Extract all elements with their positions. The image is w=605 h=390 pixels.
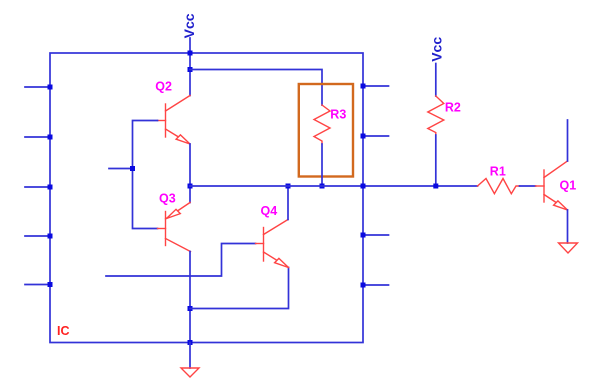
wire pin stub left 2	[25, 136, 50, 138]
node Q4 collector bus junction	[286, 184, 291, 189]
wire Vcc2 drop	[435, 64, 437, 97]
wire pin stub left 5	[25, 284, 50, 286]
IC body rectangle	[50, 53, 363, 343]
node Vcc1 branch junction	[188, 67, 193, 72]
wire main output bus	[190, 185, 478, 187]
wire Q4 collector to bus	[287, 186, 289, 220]
node R2 bus junction	[433, 184, 438, 189]
node bottom edge junction	[188, 340, 193, 345]
node R3 bus junction	[320, 184, 325, 189]
resistor R3	[314, 105, 330, 144]
wire pin stub left 4	[25, 235, 50, 237]
resistor R2	[428, 96, 444, 135]
wire Q4 base net	[106, 244, 256, 277]
svg-text:R1: R1	[490, 164, 506, 178]
wire Q3 collector down to IC bottom	[189, 252, 191, 343]
wire Vcc1 drop	[189, 38, 191, 96]
node collector-emitter junction	[188, 306, 193, 311]
svg-text:Q4: Q4	[261, 204, 278, 218]
svg-text:Vcc: Vcc	[428, 37, 444, 62]
wire base stub	[109, 168, 133, 170]
wire Q1 emitter to ground	[567, 210, 569, 243]
wire pin stub left 1	[25, 86, 50, 88]
wire pin stub right 2	[363, 135, 389, 137]
svg-text:Q2: Q2	[155, 80, 172, 94]
transistor Q4	[256, 220, 289, 268]
ground symbol IC	[181, 368, 199, 377]
node pin2 junction	[48, 135, 53, 140]
svg-text:Vcc: Vcc	[181, 13, 197, 38]
node emitter bus junction	[188, 184, 193, 189]
transistor Q3	[158, 203, 191, 252]
node pin1 junction	[48, 85, 53, 90]
wire pin stub right 1	[363, 85, 389, 87]
highlight box around R3	[299, 84, 353, 177]
svg-text:Q3: Q3	[159, 192, 176, 206]
node base stub junction	[130, 166, 135, 171]
node pin8 junction	[361, 233, 366, 238]
svg-text:IC: IC	[57, 324, 70, 338]
wire ground lead	[189, 343, 191, 369]
ground symbol Q1	[559, 243, 578, 253]
wire Q1 collector stub	[567, 120, 569, 161]
node pin4 junction	[48, 234, 53, 239]
node pin7 junction	[361, 134, 366, 139]
node pin6 junction	[361, 84, 366, 89]
wire Q4 emitter net	[190, 268, 289, 309]
wire pin stub right 4	[363, 284, 389, 286]
wire R1 to Q1 base	[520, 185, 536, 187]
wire pin stub left 3	[25, 186, 50, 188]
node pin3 junction	[48, 185, 53, 190]
wire pin stub right 3	[363, 234, 389, 236]
resistor R1	[478, 179, 520, 194]
node bus right-edge junction	[361, 184, 366, 189]
wire R2 bottom to bus	[435, 135, 437, 186]
svg-text:R2: R2	[445, 101, 461, 115]
svg-text:R3: R3	[330, 108, 346, 122]
node pin5 junction	[48, 282, 53, 287]
wire Q2 emitter to Q3 emitter	[189, 144, 191, 203]
transistor Q2	[158, 96, 191, 145]
wire Q2 base net	[133, 121, 158, 229]
node Vcc1 top-edge junction	[188, 51, 193, 56]
node pin9 junction	[361, 283, 366, 288]
svg-text:Q1: Q1	[560, 178, 577, 192]
wire Vcc branch to R3 top	[190, 70, 322, 106]
transistor Q1	[536, 161, 568, 210]
wire R3 bottom to bus	[321, 144, 323, 186]
